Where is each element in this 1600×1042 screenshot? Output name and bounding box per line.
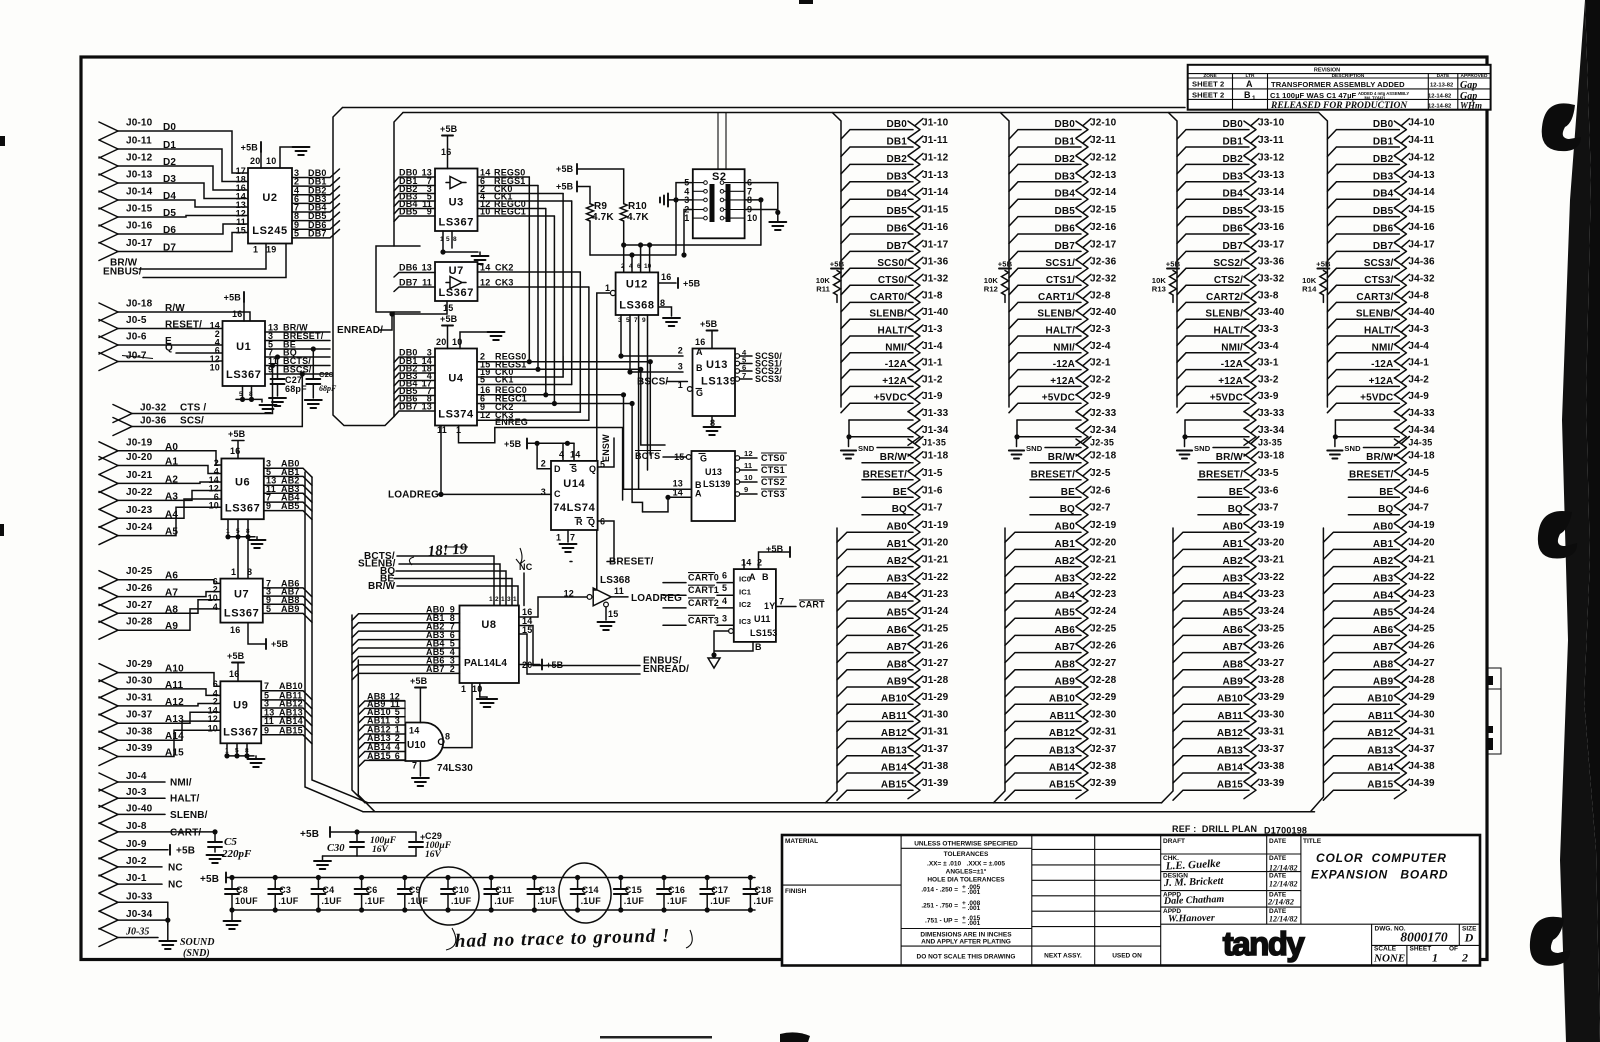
svg-text:SCS3/: SCS3/	[755, 374, 782, 384]
svg-text:16V: 16V	[372, 845, 389, 855]
svg-text:C6: C6	[366, 885, 378, 895]
node AB2 J4-21	[1323, 555, 1435, 577]
svg-text:J3-5: J3-5	[1258, 468, 1279, 479]
svg-text:AB14: AB14	[1049, 763, 1075, 774]
node AB5 U8 in	[352, 647, 460, 663]
node DB3 J4-13	[1327, 170, 1435, 192]
svg-text:11: 11	[614, 586, 624, 596]
svg-text:DB1: DB1	[1223, 137, 1244, 148]
svg-text:DATE: DATE	[1269, 838, 1287, 845]
node AB4 U8 in	[352, 639, 460, 655]
svg-text:LS367: LS367	[226, 369, 261, 381]
svg-text:11: 11	[437, 425, 447, 435]
svg-text:CART0: CART0	[688, 573, 719, 583]
node +12A J1-2	[841, 374, 943, 396]
svg-text:ENSW: ENSW	[601, 434, 611, 462]
svg-text:AB1: AB1	[1373, 539, 1394, 550]
node AB10 J1-29	[837, 692, 949, 714]
svg-text:DB7: DB7	[887, 241, 908, 252]
svg-text:14: 14	[673, 488, 683, 498]
svg-text:SHEET 2: SHEET 2	[1192, 91, 1224, 100]
connector column J3 bus trunk	[1168, 113, 1177, 408]
bus channel verticals right	[649, 362, 651, 455]
svg-text:FINISH: FINISH	[785, 888, 807, 895]
svg-text:J0-14: J0-14	[126, 187, 153, 198]
node DB0 J3-10	[1177, 118, 1285, 140]
node BSCS/ U1 out	[265, 365, 330, 375]
svg-text:C5: C5	[224, 836, 237, 848]
svg-text:AB13: AB13	[1367, 745, 1393, 756]
node AB10 U9 out	[261, 681, 312, 700]
svg-text:4.7K: 4.7K	[592, 212, 614, 223]
svg-text:DB1: DB1	[887, 137, 908, 148]
node SCS0/	[735, 348, 782, 361]
svg-text:J2-22: J2-22	[1090, 572, 1117, 583]
node AB13 J4-37	[1323, 744, 1435, 766]
svg-text:+5B: +5B	[410, 676, 428, 686]
svg-text:AB9: AB9	[1373, 677, 1394, 688]
svg-text:12/14/82: 12/14/82	[1269, 880, 1297, 889]
svg-text:CART2: CART2	[688, 598, 719, 608]
svg-text:5: 5	[239, 391, 243, 398]
svg-text:J1-23: J1-23	[922, 589, 949, 600]
node AB3 J2-22	[1005, 572, 1117, 594]
node DB4 J1-14	[841, 187, 949, 209]
svg-text:RELEASED FOR PRODUCTION: RELEASED FOR PRODUCTION	[1270, 101, 1408, 111]
node BE J2-6	[1030, 485, 1111, 506]
svg-text:G: G	[700, 454, 707, 464]
svg-text:J4-34: J4-34	[1408, 425, 1435, 436]
node J0-27 A8	[99, 600, 220, 623]
svg-text:AB8: AB8	[887, 659, 908, 670]
svg-text:AB10: AB10	[1367, 694, 1393, 705]
svg-text:J0-32: J0-32	[140, 403, 167, 414]
svg-text:J2-38: J2-38	[1090, 761, 1117, 772]
node AB12 U9 out	[261, 699, 312, 718]
svg-text:14: 14	[409, 726, 419, 736]
svg-text:DESCRIPTION: DESCRIPTION	[1332, 73, 1365, 79]
bus pipe right edge	[394, 113, 403, 417]
svg-text:BQ: BQ	[892, 504, 907, 515]
svg-text:20: 20	[436, 337, 446, 347]
svg-text:3M. TO(4)1 ...: 3M. TO(4)1 ...	[1364, 96, 1390, 101]
node AB4 J3-23	[1173, 589, 1285, 611]
node +5VDC J1-9	[841, 391, 943, 413]
svg-text:J4-37: J4-37	[1408, 744, 1435, 755]
svg-text:BR/W: BR/W	[1048, 452, 1076, 463]
svg-text:J2-20: J2-20	[1090, 537, 1117, 548]
wire U11 strobe	[729, 629, 734, 634]
svg-text:J1-31: J1-31	[922, 727, 949, 738]
svg-text:J0-5: J0-5	[126, 315, 147, 326]
node AB3 U6 out	[264, 484, 312, 503]
node SND J2-35	[1009, 437, 1114, 459]
svg-text:DB2: DB2	[1055, 154, 1076, 165]
svg-text:J1-7: J1-7	[922, 503, 943, 514]
svg-text:DB5: DB5	[1055, 206, 1076, 217]
node NMI/ J4-4	[1327, 341, 1429, 363]
svg-text:16: 16	[232, 309, 242, 319]
capacitor C18	[743, 875, 774, 913]
node AB8 U7 out	[263, 595, 312, 614]
capacitor C5	[212, 829, 217, 834]
svg-text:-12A: -12A	[1053, 359, 1075, 370]
svg-text:J4-26: J4-26	[1408, 641, 1435, 652]
wire U7 pin15 to ENREAD	[392, 301, 447, 314]
node DB2 J4-12	[1327, 152, 1435, 174]
ground U8	[479, 683, 481, 697]
capacitor C8	[225, 875, 258, 913]
title block	[782, 835, 1480, 966]
svg-text:1: 1	[226, 528, 230, 535]
svg-text:ANGLES=±1°: ANGLES=±1°	[946, 868, 987, 876]
svg-text:AB11: AB11	[881, 711, 907, 722]
node DB1 J1-11	[841, 135, 948, 157]
svg-text:J4-18: J4-18	[1408, 451, 1435, 462]
svg-text:+5B: +5B	[300, 829, 319, 840]
node DB4 J3-14	[1177, 187, 1285, 209]
svg-text:U2: U2	[262, 192, 277, 204]
svg-text:DB0: DB0	[1373, 119, 1394, 130]
wire BR/W to U2 pin1	[110, 244, 266, 270]
svg-text:16: 16	[695, 337, 705, 347]
node SCS3/ J4-36	[1327, 256, 1435, 278]
svg-text:CTS2: CTS2	[761, 477, 785, 487]
wire R9/R10 junction rails	[590, 245, 761, 255]
svg-text:DB5: DB5	[1373, 206, 1394, 217]
svg-text:G: G	[696, 388, 703, 398]
svg-text:BR/W: BR/W	[880, 452, 908, 463]
svg-text:J1-5: J1-5	[922, 468, 943, 479]
capacitor C16	[657, 875, 688, 913]
svg-text:SND: SND	[1026, 444, 1043, 453]
svg-text:HOLE DIA TOLERANCES: HOLE DIA TOLERANCES	[927, 877, 1005, 884]
svg-text:J0-34: J0-34	[126, 909, 153, 920]
node CK3 U4 out	[477, 410, 589, 420]
svg-text:J3-12: J3-12	[1258, 152, 1285, 163]
node AB0 U6 out	[264, 459, 312, 478]
node DB6 J3-16	[1177, 222, 1285, 244]
node SCS3/	[735, 371, 782, 384]
svg-text:J1-14: J1-14	[922, 187, 949, 198]
svg-text:LS367: LS367	[223, 726, 258, 738]
svg-text:SCALE: SCALE	[1374, 946, 1397, 953]
svg-text:J4-16: J4-16	[1408, 222, 1435, 233]
node SLENB/ J2-40	[1009, 307, 1117, 329]
svg-text:J0-27: J0-27	[126, 600, 153, 611]
svg-text:CART3/: CART3/	[1356, 292, 1393, 303]
svg-text:J3-30: J3-30	[1258, 709, 1285, 720]
capacitor C4	[311, 875, 342, 913]
svg-text:4.7K: 4.7K	[627, 212, 649, 223]
svg-text:Dale Chatham: Dale Chatham	[1163, 894, 1225, 907]
svg-text:J2-39: J2-39	[1090, 778, 1117, 789]
svg-text:AB2: AB2	[1223, 556, 1244, 567]
node CTS1 bar	[735, 461, 787, 475]
svg-text:Q: Q	[589, 464, 596, 474]
svg-text:5: 5	[722, 583, 727, 593]
svg-text:EXPANSION BOARD: EXPANSION BOARD	[1311, 868, 1448, 882]
svg-text:J1-8: J1-8	[922, 290, 943, 301]
node DB0 U3 in	[394, 168, 435, 183]
svg-text:SCS0/: SCS0/	[877, 258, 907, 269]
svg-text:J0-11: J0-11	[126, 136, 152, 147]
svg-text:BSCS/: BSCS/	[283, 365, 312, 375]
node SLENB/ J3-40	[1177, 307, 1285, 329]
svg-text:+5B: +5B	[241, 143, 259, 153]
svg-text:C17: C17	[711, 885, 728, 895]
svg-text:ENREAD/: ENREAD/	[643, 664, 689, 675]
svg-text:BR/W: BR/W	[1366, 452, 1394, 463]
svg-text:AB0: AB0	[1055, 522, 1076, 533]
svg-text:J4-31: J4-31	[1408, 727, 1435, 738]
svg-text:J1-30: J1-30	[922, 709, 949, 720]
svg-text:J2-9: J2-9	[1090, 391, 1111, 402]
svg-text:J1-15: J1-15	[922, 205, 949, 216]
node J2-33	[1017, 408, 1117, 429]
connector column J1 bus trunk	[832, 113, 841, 408]
svg-text:10: 10	[747, 213, 757, 223]
svg-text:.1UF: .1UF	[710, 896, 731, 906]
svg-text:J1-16: J1-16	[922, 222, 949, 233]
svg-text:C8: C8	[236, 885, 248, 895]
svg-text:+5B: +5B	[1166, 260, 1181, 269]
node DB5 U3 in	[394, 207, 435, 222]
node AB2 J2-21	[1005, 555, 1117, 577]
bus branch DB6 DB7 outline	[376, 246, 420, 312]
svg-text:J1-4: J1-4	[922, 341, 943, 352]
node CART3 bar U11 in	[663, 613, 734, 625]
node J0-17 D7	[99, 233, 248, 261]
svg-text:2: 2	[495, 596, 499, 603]
node J3-33	[1185, 408, 1285, 429]
svg-text:DB2: DB2	[1223, 154, 1244, 165]
svg-text:J2-29: J2-29	[1090, 692, 1117, 703]
svg-text:J4-11: J4-11	[1408, 135, 1434, 146]
svg-text:AB5: AB5	[281, 501, 300, 511]
node AB15 J3-39	[1173, 778, 1285, 800]
node BE J1-6	[862, 485, 943, 506]
svg-text:AB5: AB5	[1223, 608, 1244, 619]
svg-text:+5B: +5B	[176, 845, 195, 856]
svg-text:OF: OF	[1449, 946, 1458, 953]
svg-text:SCS1/: SCS1/	[1045, 258, 1075, 269]
svg-text:10: 10	[480, 207, 490, 217]
resistor R9	[587, 204, 594, 221]
node AB1 J2-20	[1005, 537, 1117, 559]
svg-text:J2-33: J2-33	[1090, 408, 1117, 419]
node HALT/ J4-3	[1327, 324, 1429, 346]
node J0-22 A3	[99, 487, 221, 510]
svg-text:J0-9: J0-9	[126, 839, 147, 850]
svg-text:J4-27: J4-27	[1408, 658, 1435, 669]
node DB7 J3-17	[1177, 239, 1285, 261]
svg-text:AB9: AB9	[887, 677, 908, 688]
svg-text:COLOR COMPUTER: COLOR COMPUTER	[1316, 851, 1447, 865]
svg-text:NC: NC	[168, 862, 183, 873]
node AB7 J2-26	[1005, 641, 1117, 663]
svg-text:(SND): (SND)	[183, 948, 210, 959]
node J1-34	[846, 420, 948, 445]
node AB7 J1-26	[837, 641, 949, 663]
svg-text:+5B: +5B	[998, 260, 1013, 269]
node DB4 U4 in	[394, 379, 435, 394]
power +5B U1	[243, 292, 245, 302]
svg-text:.014 - .250 =: .014 - .250 =	[921, 887, 958, 894]
svg-text:CART0/: CART0/	[870, 292, 907, 303]
node +5VDC J2-9	[1009, 391, 1111, 413]
node DB0 J4-10	[1327, 118, 1435, 140]
svg-text:-12A: -12A	[1221, 359, 1243, 370]
svg-text:J3-16: J3-16	[1258, 222, 1285, 233]
svg-text:J2-40: J2-40	[1090, 307, 1117, 318]
svg-text:LS367: LS367	[439, 217, 474, 229]
node AB8 J4-27	[1323, 658, 1435, 680]
svg-text:J1-20: J1-20	[922, 537, 949, 548]
svg-text:5: 5	[266, 604, 271, 614]
node DB6 J1-16	[841, 222, 949, 244]
node SLENB/ J1-40	[841, 307, 949, 329]
svg-text:AB6: AB6	[887, 625, 908, 636]
node CK3 U7 out	[478, 278, 589, 288]
wire top bus upper	[343, 107, 1186, 109]
ground cap row	[231, 910, 233, 921]
node DB0 U4 in	[394, 348, 435, 363]
bus channel verticals	[528, 177, 530, 362]
svg-text:NEXT ASSY.: NEXT ASSY.	[1044, 953, 1082, 960]
wire U14 Q- out	[598, 521, 614, 562]
svg-text:16V: 16V	[425, 850, 442, 860]
svg-text:SLENB/: SLENB/	[170, 810, 208, 821]
svg-text:J0-29: J0-29	[126, 659, 153, 670]
node J0-12 D2	[99, 153, 248, 191]
node -12A J1-1	[841, 358, 943, 380]
svg-text:CART2/: CART2/	[1206, 292, 1243, 303]
node J0-3 HALT/	[99, 787, 200, 807]
node AB15 J1-39	[837, 778, 949, 800]
node CART1 bar U11 in	[663, 583, 734, 595]
IC U3	[435, 169, 478, 232]
svg-text:12-14-82: 12-14-82	[1428, 94, 1451, 100]
svg-text:J4-1: J4-1	[1408, 358, 1429, 369]
svg-text:AB6: AB6	[1223, 625, 1244, 636]
svg-text:CTS1/: CTS1/	[1046, 275, 1075, 286]
svg-text:AB2: AB2	[887, 556, 908, 567]
svg-text:J1-6: J1-6	[922, 485, 943, 496]
svg-text:9: 9	[642, 317, 646, 324]
node BRESET/ U1 out	[265, 331, 330, 341]
svg-text:AB14: AB14	[1367, 763, 1393, 774]
svg-text:NONE: NONE	[1373, 953, 1405, 965]
svg-text:J1-26: J1-26	[922, 641, 949, 652]
node J0-14 D4	[99, 187, 248, 210]
svg-text:IC3: IC3	[739, 617, 751, 626]
svg-text:10: 10	[472, 684, 482, 694]
svg-text:10: 10	[209, 500, 219, 510]
node BE J4-6	[1348, 485, 1429, 506]
node J0-40 SLENB/	[99, 803, 208, 823]
gate U10 74LS30	[405, 723, 443, 762]
ground J0-33/34	[165, 918, 170, 923]
svg-text:AB15: AB15	[881, 780, 907, 791]
scan artifact blob 3	[1530, 917, 1570, 966]
node J0-1 NC	[99, 873, 183, 893]
svg-text:J4-40: J4-40	[1408, 307, 1435, 318]
svg-text:J2-7: J2-7	[1090, 503, 1111, 514]
svg-text:tandy: tandy	[1223, 925, 1306, 962]
svg-text:3: 3	[618, 317, 622, 324]
gate U12 LS368 buffer	[564, 575, 683, 630]
svg-text:J0-24: J0-24	[126, 522, 153, 533]
svg-text:D1700198: D1700198	[1264, 826, 1307, 836]
svg-text:S2: S2	[712, 171, 727, 183]
node AB4 U6 out	[264, 493, 312, 512]
svg-text:J3-9: J3-9	[1258, 391, 1279, 402]
svg-text:C18: C18	[754, 885, 771, 895]
node AB3 U8 in	[352, 630, 460, 646]
svg-text:DB5: DB5	[1223, 206, 1244, 217]
svg-text:J2-5: J2-5	[1090, 468, 1111, 479]
node AB9 J3-28	[1173, 675, 1285, 697]
svg-text:AB12: AB12	[1049, 728, 1075, 739]
svg-text:SLENB/: SLENB/	[1205, 309, 1243, 320]
border frame	[81, 57, 1487, 960]
node REGC1 U3 out	[478, 207, 555, 217]
svg-text:9: 9	[264, 725, 269, 735]
node J0-23 A4	[99, 499, 221, 527]
node REGS1 U3 out	[478, 176, 539, 186]
svg-text:10: 10	[210, 363, 220, 373]
svg-text:5: 5	[235, 748, 239, 755]
svg-text:J0-26: J0-26	[126, 583, 153, 594]
svg-text:J1-17: J1-17	[922, 239, 949, 250]
svg-text:CTS /: CTS /	[180, 403, 206, 414]
svg-text:13: 13	[422, 263, 432, 273]
svg-text:J0-35: J0-35	[125, 927, 149, 938]
svg-text:6: 6	[637, 263, 641, 270]
svg-text:SND: SND	[1194, 444, 1211, 453]
svg-text:LS374: LS374	[438, 409, 474, 421]
svg-text:J3-10: J3-10	[1258, 118, 1285, 129]
svg-text:A: A	[1246, 79, 1253, 89]
svg-text:J3-1: J3-1	[1258, 358, 1279, 369]
svg-text:AB7: AB7	[1223, 642, 1244, 653]
svg-text:AB4: AB4	[1373, 591, 1394, 602]
svg-text:J1-12: J1-12	[922, 152, 949, 163]
node AB11 J1-30	[837, 709, 949, 731]
node CK0 U4 out	[477, 367, 563, 377]
svg-text:CART: CART	[799, 600, 825, 610]
svg-text:C16: C16	[668, 885, 685, 895]
node DB0 U2 out	[292, 168, 340, 178]
svg-text:U13: U13	[706, 359, 728, 371]
svg-text:J0-38: J0-38	[126, 727, 153, 738]
svg-text:1: 1	[605, 283, 610, 293]
node BQ J2-7	[1030, 503, 1111, 524]
node CK0 U3 out	[478, 184, 564, 194]
svg-text:J2-37: J2-37	[1090, 744, 1117, 755]
svg-text:AB10: AB10	[1049, 694, 1075, 705]
node DB4 U2 out	[292, 203, 340, 213]
node BR/W J4-18	[1348, 451, 1435, 472]
node NMI/ J3-4	[1177, 341, 1279, 363]
node AB2 U6 out	[264, 476, 312, 495]
node DB7 U7 in	[394, 278, 435, 292]
svg-text:SLENB/: SLENB/	[1356, 309, 1394, 320]
svg-text:1: 1	[684, 213, 689, 223]
node DB5 J2-15	[1009, 205, 1117, 227]
node AB7 U8 in	[352, 664, 460, 680]
